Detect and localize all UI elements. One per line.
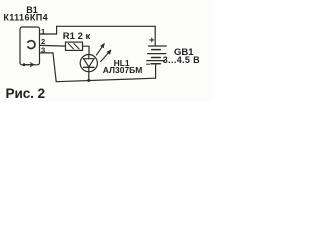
svg-text:К1116КП4: К1116КП4 — [3, 13, 48, 23]
wire pin2 to R1 — [40, 44, 66, 47]
junction dot (node of HL1 cathode and bottom rail) — [87, 79, 90, 82]
hall-element symbol inside B1 — [28, 41, 35, 49]
svg-text:3: 3 — [41, 45, 45, 54]
wire pin3 to bottom rail — [40, 53, 56, 82]
magnet direction arrow on B1 bottom edge — [25, 63, 34, 67]
svg-text:3...4.5 В: 3...4.5 В — [163, 55, 200, 65]
battery negative lead — [155, 64, 157, 78]
IC B1 box (К1116КП4 hall sensor) — [20, 27, 40, 65]
wire R1 to HL1 anode — [83, 46, 90, 54]
magnet direction dot on B1 bottom edge — [23, 63, 26, 66]
wire pin1 to top rail — [40, 26, 57, 34]
svg-text:АЛ307БМ: АЛ307БМ — [103, 65, 143, 75]
svg-text:1: 1 — [41, 27, 45, 36]
top rail wire — [57, 25, 156, 27]
svg-text:Рис. 2: Рис. 2 — [6, 86, 46, 101]
battery plus sign — [150, 38, 154, 42]
svg-text:R1 2 к: R1 2 к — [63, 31, 91, 42]
bottom rail wire — [56, 78, 155, 82]
battery minus sign — [147, 63, 150, 65]
resistor R1 — [66, 42, 83, 50]
battery positive lead — [154, 26, 156, 46]
battery GB1 plates — [147, 46, 167, 64]
LED HL1 (diode in circle) — [80, 55, 97, 72]
wire HL1 cathode to bottom rail — [88, 72, 90, 81]
light emission arrows of HL1 — [97, 43, 112, 62]
